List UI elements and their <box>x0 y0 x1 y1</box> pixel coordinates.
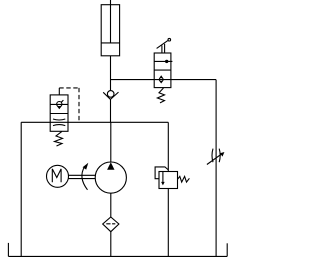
unloading valve V2 <box>50 95 68 131</box>
wire check valve to main junction <box>110 99 112 122</box>
motor M1 <box>47 165 69 187</box>
tank <box>8 243 227 257</box>
pilot line of relief valve V4 <box>155 167 168 179</box>
cylinder C1 <box>101 0 119 56</box>
lever actuator of valve V1 <box>157 38 171 52</box>
node branch junction <box>111 79 217 81</box>
wire cylinder port down to check valve <box>110 56 112 91</box>
pump P1 <box>95 162 126 193</box>
wire main horizontal line <box>21 121 168 123</box>
shaft motor to pump <box>69 175 96 178</box>
wire main line corner down to relief valve <box>167 122 169 171</box>
wire right line down to tank <box>215 80 217 257</box>
throttle valve V5 <box>207 149 225 165</box>
release valve V1 (manual 2/2) <box>154 53 172 88</box>
rotation arrow <box>82 163 88 190</box>
wire filter to tank <box>110 232 112 257</box>
check valve V3 <box>103 91 118 100</box>
wire relief valve outlet to tank <box>167 189 169 257</box>
spring of valve V1 <box>157 88 164 103</box>
pilot line (dashed) of valve V2 <box>59 88 79 122</box>
relief valve V4 <box>159 172 178 189</box>
spring of valve V2 <box>55 131 63 146</box>
wire pump outlet up to main junction <box>110 122 112 162</box>
spring of relief valve V4 <box>178 176 190 182</box>
filter F1 <box>103 217 119 232</box>
wire left drain line to tank <box>20 122 22 256</box>
wire pump suction down to filter <box>110 193 112 217</box>
